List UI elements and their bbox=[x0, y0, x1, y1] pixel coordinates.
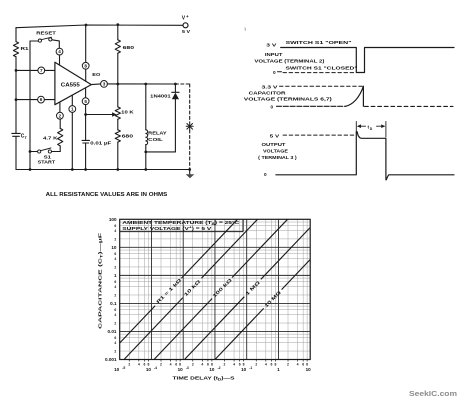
svg-text:3: 3 bbox=[103, 82, 106, 87]
chart title box bbox=[120, 219, 243, 231]
pin 3 bbox=[91, 81, 175, 88]
svg-text:2: 2 bbox=[287, 362, 289, 366]
svg-text:4: 4 bbox=[114, 341, 116, 345]
svg-text:10: 10 bbox=[209, 367, 215, 372]
svg-text:4.7 K: 4.7 K bbox=[43, 136, 58, 142]
svg-text:10: 10 bbox=[111, 245, 117, 250]
junction bottom rail cap bbox=[84, 168, 87, 171]
svg-text:-5: -5 bbox=[122, 366, 125, 370]
svg-text:2: 2 bbox=[114, 321, 116, 325]
svg-text:10: 10 bbox=[114, 367, 120, 372]
svg-text:4: 4 bbox=[297, 362, 299, 366]
junction S1 rail bbox=[29, 150, 32, 153]
svg-text:4: 4 bbox=[201, 362, 203, 366]
svg-text:6: 6 bbox=[40, 97, 43, 102]
svg-text:4: 4 bbox=[138, 362, 140, 366]
pin 2 bbox=[57, 102, 64, 128]
ground bbox=[186, 170, 195, 179]
svg-text:10: 10 bbox=[306, 367, 312, 372]
waveform capacitor trace bbox=[277, 86, 364, 106]
y axis labels bbox=[105, 217, 117, 362]
switch RESET bbox=[30, 30, 59, 48]
svg-text:4: 4 bbox=[114, 257, 116, 261]
chart label 100k bbox=[212, 277, 234, 299]
svg-text:4: 4 bbox=[114, 285, 116, 289]
chart label 1M bbox=[245, 280, 262, 297]
dimension tD bbox=[356, 122, 386, 138]
svg-text:6: 6 bbox=[302, 362, 304, 366]
svg-text:D: D bbox=[370, 127, 373, 131]
wire top V+ rail bbox=[16, 25, 183, 28]
svg-text:8: 8 bbox=[84, 63, 87, 68]
wire bottom rail bbox=[16, 169, 190, 171]
svg-text:6: 6 bbox=[114, 308, 116, 312]
svg-text:S1: S1 bbox=[44, 155, 52, 160]
pin 6 bbox=[16, 96, 55, 103]
svg-text:1: 1 bbox=[277, 367, 280, 372]
svg-text:10: 10 bbox=[178, 367, 184, 372]
svg-text:6: 6 bbox=[207, 362, 209, 366]
capacitor CT bbox=[12, 133, 28, 140]
svg-text:2: 2 bbox=[114, 237, 116, 241]
relay K1 coil bbox=[146, 130, 168, 145]
svg-text:4: 4 bbox=[114, 229, 116, 233]
junction bottom rail 680 bbox=[116, 168, 119, 171]
svg-text:3.3 V: 3.3 V bbox=[262, 85, 279, 90]
svg-text:0.1: 0.1 bbox=[110, 301, 117, 306]
svg-text:5 V: 5 V bbox=[270, 133, 281, 138]
svg-text:2: 2 bbox=[160, 362, 162, 366]
svg-text:T: T bbox=[25, 136, 28, 140]
potentiometer 10K bbox=[86, 84, 135, 119]
svg-text:5 V: 5 V bbox=[182, 29, 191, 35]
svg-text:EO: EO bbox=[92, 72, 100, 78]
svg-text:2: 2 bbox=[114, 350, 116, 354]
terminal V+ 5V bbox=[182, 14, 191, 35]
svg-text:( TERMINAL 3 ): ( TERMINAL 3 ) bbox=[258, 155, 297, 160]
svg-text:2: 2 bbox=[128, 362, 130, 366]
svg-text:TIME DELAY (tD)—S: TIME DELAY (tD)—S bbox=[173, 376, 236, 382]
svg-text:10 kΩ: 10 kΩ bbox=[183, 279, 202, 298]
svg-text:0: 0 bbox=[271, 104, 274, 109]
relay contact symbol bbox=[186, 123, 193, 130]
svg-text:SWITCH S1 "CLOSED": SWITCH S1 "CLOSED" bbox=[286, 65, 358, 70]
junction bottom rail pin1 bbox=[71, 168, 74, 171]
svg-text:0.01: 0.01 bbox=[108, 329, 117, 334]
chart label 10k bbox=[183, 279, 202, 298]
svg-text:+: + bbox=[186, 14, 189, 19]
svg-text:10 K: 10 K bbox=[121, 110, 134, 116]
capacitor 0.01uF bbox=[82, 140, 111, 169]
wire dashed to contact bbox=[175, 84, 190, 170]
svg-text:SWITCH S1 "OPEN": SWITCH S1 "OPEN" bbox=[286, 40, 352, 45]
svg-text:0.001: 0.001 bbox=[105, 357, 117, 362]
waveform output trace bbox=[276, 132, 454, 180]
svg-text:8: 8 bbox=[179, 362, 181, 366]
chart line 1M bbox=[185, 228, 311, 360]
svg-text:2: 2 bbox=[59, 113, 62, 118]
svg-text:6: 6 bbox=[175, 362, 177, 366]
svg-text:6: 6 bbox=[114, 336, 116, 340]
svg-text:CAPACITOR: CAPACITOR bbox=[249, 90, 287, 95]
junction 680 top rail bbox=[116, 23, 119, 26]
op-amp U1 CA555 bbox=[55, 62, 91, 104]
svg-text:START: START bbox=[38, 160, 56, 166]
waveform input zero dashed bbox=[278, 71, 357, 74]
svg-text:100: 100 bbox=[109, 217, 117, 222]
svg-text:RELAY: RELAY bbox=[148, 130, 168, 135]
junction bottom rail x30 bbox=[29, 168, 32, 171]
svg-text:8: 8 bbox=[306, 362, 308, 366]
resistor 680 upper bbox=[115, 25, 134, 84]
svg-text:4: 4 bbox=[233, 362, 235, 366]
junction bottom rail ground bbox=[188, 168, 191, 171]
svg-text:6: 6 bbox=[239, 362, 241, 366]
svg-text:R1: R1 bbox=[21, 46, 30, 51]
wire relay branch bbox=[145, 84, 147, 170]
chart major gridlines bbox=[120, 219, 311, 359]
wire reset/start rail bbox=[29, 41, 31, 170]
wire left rail bbox=[15, 28, 17, 170]
pin 7 bbox=[16, 67, 55, 74]
junction 680 pin3 wire bbox=[116, 83, 119, 86]
svg-text:-4: -4 bbox=[154, 366, 157, 370]
svg-text:SeekIC.com: SeekIC.com bbox=[409, 389, 457, 398]
svg-text:2: 2 bbox=[192, 362, 194, 366]
x axis labels bbox=[114, 362, 311, 372]
pin 1 bbox=[69, 95, 76, 169]
svg-text:CAPACITANCE (CT)—μF: CAPACITANCE (CT)—μF bbox=[98, 233, 104, 329]
svg-text:8: 8 bbox=[243, 362, 245, 366]
svg-text:8: 8 bbox=[211, 362, 213, 366]
junction relay bottom bbox=[144, 151, 147, 154]
svg-text:6: 6 bbox=[114, 280, 116, 284]
chart line 100k bbox=[154, 219, 288, 359]
svg-text:COIL: COIL bbox=[148, 137, 163, 142]
y axis title bbox=[98, 233, 104, 329]
wire relay to diode bottom bbox=[146, 151, 176, 153]
svg-text:0: 0 bbox=[273, 70, 276, 75]
output level dashed bbox=[283, 134, 354, 136]
svg-text:2: 2 bbox=[224, 362, 226, 366]
svg-text:8: 8 bbox=[274, 362, 276, 366]
svg-text:2: 2 bbox=[255, 362, 257, 366]
junction pin3 diode branch bbox=[174, 83, 177, 86]
svg-text:680: 680 bbox=[122, 134, 134, 140]
chart label 10M bbox=[263, 290, 282, 309]
svg-text:7: 7 bbox=[40, 68, 43, 73]
junction pin5 wiper bbox=[84, 113, 87, 116]
svg-text:0: 0 bbox=[264, 172, 267, 177]
svg-text:RESET: RESET bbox=[36, 30, 56, 36]
svg-text:6: 6 bbox=[114, 224, 116, 228]
svg-text:6: 6 bbox=[270, 362, 272, 366]
svg-text:5: 5 bbox=[84, 99, 87, 104]
svg-text:SUPPLY VOLTAGE (V+) = 5 V: SUPPLY VOLTAGE (V+) = 5 V bbox=[122, 225, 212, 230]
svg-text:VOLTAGE (TERMINALS 6,7): VOLTAGE (TERMINALS 6,7) bbox=[244, 96, 333, 101]
chart line 10M bbox=[215, 260, 310, 360]
waveform capacitor zero dashed bbox=[365, 105, 454, 107]
chart line 10k bbox=[124, 219, 258, 359]
svg-text:INPUT: INPUT bbox=[265, 52, 283, 57]
switch S1 START bbox=[30, 148, 60, 166]
pin 4 bbox=[56, 48, 63, 65]
svg-text:4: 4 bbox=[114, 313, 116, 317]
chart line R1=1k bbox=[120, 219, 238, 343]
diode 1N4001 bbox=[150, 84, 179, 152]
junction pin3 relay branch bbox=[144, 83, 147, 86]
resistor 680 lower bbox=[115, 119, 133, 169]
chart label R1=1k bbox=[155, 277, 182, 304]
svg-text:4: 4 bbox=[170, 362, 172, 366]
svg-text:VOLTAGE: VOLTAGE bbox=[263, 148, 288, 153]
svg-text:OUTPUT: OUTPUT bbox=[262, 142, 286, 147]
resistor 4.7K bbox=[43, 128, 63, 151]
svg-text:1: 1 bbox=[114, 273, 117, 278]
stray mark bbox=[244, 28, 246, 31]
chart minor gridlines bbox=[120, 219, 311, 359]
svg-text:0.01 μF: 0.01 μF bbox=[90, 141, 111, 147]
svg-text:VOLTAGE (TERMINAL 2): VOLTAGE (TERMINAL 2) bbox=[254, 58, 325, 63]
svg-text:4: 4 bbox=[265, 362, 267, 366]
svg-text:680: 680 bbox=[123, 45, 135, 51]
svg-text:10: 10 bbox=[241, 367, 247, 372]
svg-text:-3: -3 bbox=[186, 366, 189, 370]
svg-text:6: 6 bbox=[143, 362, 145, 366]
svg-text:4: 4 bbox=[58, 49, 61, 54]
svg-text:1N4001: 1N4001 bbox=[150, 94, 171, 99]
svg-text:-2: -2 bbox=[218, 366, 221, 370]
pin 5 bbox=[82, 88, 89, 140]
svg-text:-1: -1 bbox=[249, 366, 252, 370]
svg-text:8: 8 bbox=[147, 362, 149, 366]
svg-text:10: 10 bbox=[146, 367, 152, 372]
x axis ticks bbox=[129, 360, 307, 362]
svg-text:10 MΩ: 10 MΩ bbox=[263, 290, 282, 309]
junction bottom rail relay bbox=[144, 168, 147, 171]
svg-text:3 V: 3 V bbox=[266, 43, 277, 48]
junction pin8 top rail bbox=[85, 24, 88, 27]
junction pin6 left rail bbox=[15, 98, 18, 101]
chart frame bbox=[120, 219, 311, 359]
svg-text:6: 6 bbox=[114, 252, 116, 256]
svg-text:2: 2 bbox=[114, 265, 116, 269]
junction pin7 left rail bbox=[15, 69, 18, 72]
resistor R1 bbox=[13, 42, 29, 57]
svg-text:ALL RESISTANCE VALUES ARE IN O: ALL RESISTANCE VALUES ARE IN OHMS bbox=[46, 192, 168, 198]
svg-text:2: 2 bbox=[114, 293, 116, 297]
svg-text:1: 1 bbox=[71, 107, 74, 112]
waveform input voltage trace bbox=[281, 48, 454, 73]
capacitor peak dashed bbox=[280, 85, 364, 87]
svg-text:CA555: CA555 bbox=[61, 83, 80, 89]
pin 8 bbox=[82, 25, 89, 81]
